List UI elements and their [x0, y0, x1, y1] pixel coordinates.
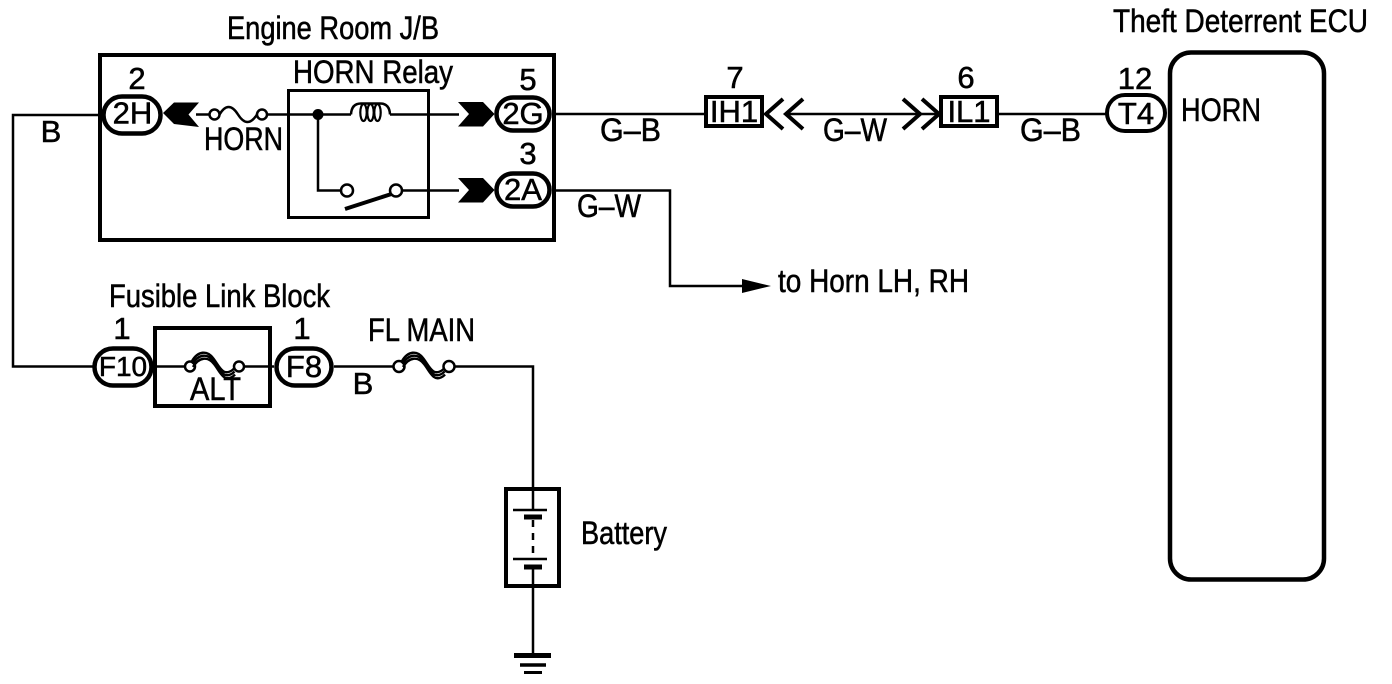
wire B: 2H out of J/B, down left side, to F10 — [13, 115, 100, 367]
svg-text:T4: T4 — [1118, 96, 1154, 131]
connector IH1 — [706, 94, 762, 129]
svg-text:G–B: G–B — [1020, 112, 1081, 148]
svg-text:IL1: IL1 — [947, 94, 990, 129]
wire: between in-line connectors — [786, 113, 939, 116]
wire: junction down to relay switch — [318, 115, 341, 191]
svg-text:HORN: HORN — [1181, 92, 1261, 128]
svg-text:Theft Deterrent ECU: Theft Deterrent ECU — [1113, 3, 1368, 39]
connector 2A — [497, 172, 550, 207]
svg-text:2A: 2A — [504, 172, 542, 207]
svg-text:5: 5 — [519, 62, 536, 97]
connector arrow (male, to 2G) — [458, 102, 495, 127]
connector arrow (male, to 2A) — [458, 178, 495, 203]
connector 2G — [497, 96, 550, 131]
svg-text:G–B: G–B — [600, 112, 661, 148]
in-line connector chevrons IH1 side — [766, 99, 803, 129]
node: coil/switch junction — [313, 109, 324, 120]
connector F8 — [277, 349, 332, 386]
svg-text:to Horn LH, RH: to Horn LH, RH — [778, 263, 969, 299]
fusible link FL MAIN — [394, 353, 455, 379]
wire: IL1 to T4 — [997, 113, 1107, 116]
svg-text:Fusible Link Block: Fusible Link Block — [109, 278, 331, 314]
svg-text:F10: F10 — [99, 351, 147, 382]
svg-text:1: 1 — [113, 311, 130, 346]
wire: FL MAIN to battery — [455, 367, 533, 490]
svg-text:Battery: Battery — [581, 515, 667, 551]
relay switch contacts and blade — [341, 185, 402, 210]
svg-text:G–W: G–W — [823, 112, 888, 148]
relay coil L — [351, 104, 390, 122]
wire: F8 to FL MAIN — [334, 365, 395, 368]
wire: coil to 2G arrow — [390, 113, 459, 116]
svg-text:2: 2 — [128, 61, 145, 96]
svg-text:B: B — [41, 114, 62, 149]
wire: battery to ground — [532, 586, 535, 655]
connector 2H — [104, 96, 161, 134]
svg-text:2H: 2H — [113, 96, 153, 131]
svg-text:HORN Relay: HORN Relay — [293, 54, 453, 90]
svg-text:2G: 2G — [502, 96, 543, 131]
junction block: Engine Room J/B box — [100, 55, 554, 240]
connector F10 — [95, 349, 152, 386]
svg-text:Engine Room J/B: Engine Room J/B — [227, 10, 439, 46]
svg-text:B: B — [353, 366, 374, 401]
svg-text:ALT: ALT — [190, 371, 241, 407]
svg-text:F8: F8 — [286, 349, 322, 384]
svg-text:7: 7 — [726, 60, 743, 95]
svg-text:6: 6 — [957, 60, 974, 95]
wire: arrow to fuse HORN — [196, 113, 210, 116]
fuse HORN — [210, 107, 268, 122]
wire: fuse to relay coil — [267, 113, 351, 116]
svg-text:1: 1 — [293, 311, 310, 346]
ground — [514, 656, 551, 673]
ECU box — [1170, 53, 1324, 580]
wire: switch to 2A arrow — [402, 189, 459, 192]
connector IL1 — [941, 94, 997, 129]
wire inside block right — [243, 365, 274, 368]
wire: 2A right, down, to horns arrow — [552, 191, 744, 287]
connector arrow (female, at 2H) — [163, 103, 199, 128]
wire: 2G to IH1 — [552, 113, 706, 116]
wire inside block — [152, 365, 186, 368]
in-line connector chevrons IL1 side — [903, 99, 939, 129]
svg-text:FL MAIN: FL MAIN — [368, 312, 475, 348]
arrowhead: to Horn LH, RH — [742, 279, 771, 293]
svg-text:3: 3 — [519, 136, 536, 171]
svg-text:HORN: HORN — [204, 121, 283, 157]
relay box HORN Relay — [289, 91, 429, 218]
connector T4 — [1107, 95, 1165, 131]
svg-text:G–W: G–W — [577, 188, 642, 224]
battery BAT — [506, 489, 559, 586]
svg-text:12: 12 — [1118, 61, 1152, 96]
fusible link ALT — [185, 353, 244, 379]
svg-text:IH1: IH1 — [710, 94, 758, 129]
fusible link block box — [155, 328, 270, 406]
